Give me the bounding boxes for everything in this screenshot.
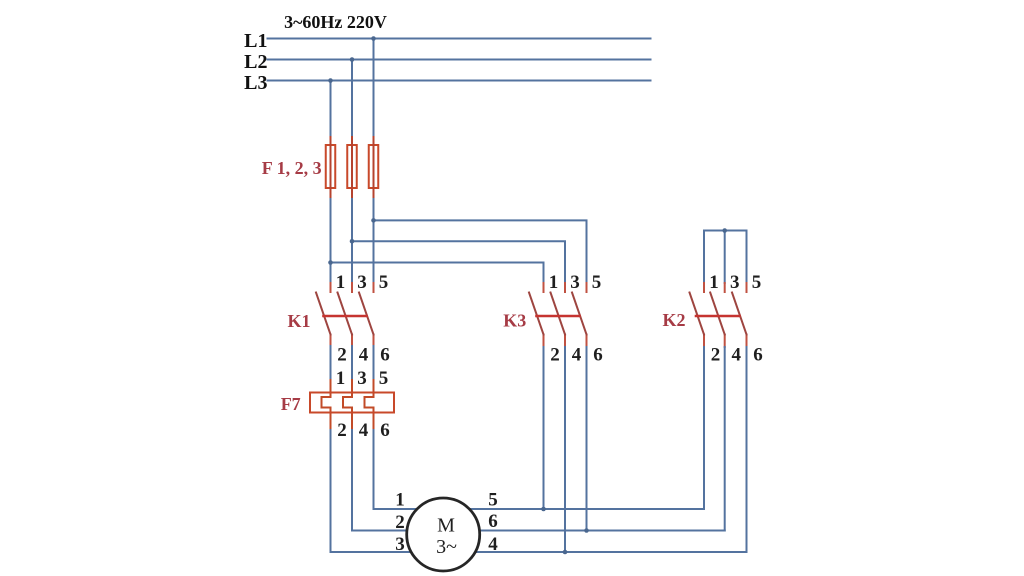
- wire L2 rail: [268, 59, 651, 61]
- svg-text:4: 4: [359, 420, 369, 441]
- fuse F3 wire: [373, 137, 375, 199]
- fuse F3 body: [369, 145, 379, 188]
- svg-text:2: 2: [711, 344, 721, 365]
- junction branch L1: [371, 218, 376, 223]
- fuse F3 inner wire: [373, 145, 375, 188]
- svg-text:5: 5: [752, 272, 762, 293]
- wire K2 pole 2 down to motor line 6: [724, 347, 726, 531]
- overload F7 heater pole 1: [322, 380, 331, 430]
- contactor K3 pole 3 contact: [586, 283, 588, 347]
- svg-text:K3: K3: [503, 311, 526, 331]
- contactor K1 crossbar: [324, 315, 367, 318]
- svg-text:1: 1: [709, 272, 719, 293]
- wire fuse F1 to K1 pole 1: [330, 199, 332, 283]
- fuse F1 wire: [330, 137, 332, 199]
- svg-text:4: 4: [488, 534, 498, 555]
- junction K2 bridge: [722, 228, 727, 233]
- wire fuse F2 to K1 pole 2: [351, 199, 353, 283]
- svg-text:1: 1: [395, 490, 405, 511]
- junction K3 pole 3 / line 6: [584, 528, 589, 533]
- wire K2 pole 3 down to motor line 4: [746, 347, 748, 552]
- contactor K1 pole 1 contact: [330, 283, 332, 346]
- wire branch phase L3 to K3 pole 1: [331, 263, 544, 284]
- contactor K3 pole 1 contact: [543, 283, 545, 347]
- wire L3 tap down to fuse F1: [330, 81, 332, 138]
- motor M1 body: [407, 498, 480, 571]
- wire motor line 3-4: [331, 551, 747, 553]
- contactor K2 pole 3 contact: [746, 283, 748, 347]
- contactor K3 pole 2 contact: [564, 283, 566, 347]
- wire K1 to F7 pole 1: [330, 346, 332, 380]
- wire F7 pole 2 to motor line 2: [351, 430, 353, 531]
- junction K3 pole 1 / line 5: [541, 507, 546, 512]
- wire L1 rail: [268, 38, 651, 40]
- contactor K3 crossbar: [537, 315, 580, 318]
- svg-text:4: 4: [572, 344, 582, 365]
- junction L3 tap: [328, 78, 333, 83]
- fuse F2 inner wire: [351, 145, 353, 188]
- svg-text:6: 6: [380, 344, 390, 365]
- wire K3 pole 2 down to motor line 4: [564, 347, 566, 552]
- svg-text:L1: L1: [244, 30, 267, 52]
- svg-text:3~: 3~: [436, 536, 457, 558]
- svg-text:4: 4: [359, 344, 369, 365]
- overload F7 heater pole 3: [365, 380, 374, 430]
- junction L1 tap: [371, 36, 376, 41]
- wire K2 pole 2 drop: [724, 231, 726, 284]
- overload F7 heater pole 2: [343, 380, 352, 430]
- svg-text:2: 2: [550, 344, 560, 365]
- junction K3 pole 2 / line 4: [563, 550, 568, 555]
- svg-text:L3: L3: [244, 72, 267, 94]
- contactor K1 pole 3 contact: [373, 283, 375, 346]
- wire L2 tap down to fuse F2: [351, 60, 353, 138]
- svg-text:1: 1: [549, 272, 559, 293]
- wire F7 pole 1 to motor line 3: [330, 430, 332, 552]
- junction branch L3: [328, 260, 333, 265]
- svg-text:6: 6: [593, 344, 603, 365]
- svg-text:1: 1: [336, 272, 346, 293]
- wire F7 pole 3 to motor line 1: [373, 430, 375, 509]
- svg-text:2: 2: [395, 512, 405, 533]
- wire fuse F3 to K1 pole 3: [373, 199, 375, 283]
- svg-text:L2: L2: [244, 51, 267, 73]
- wire motor line 2-6: [352, 530, 725, 532]
- fuse F1 inner wire: [330, 145, 332, 188]
- contactor K1 pole 2 contact: [351, 283, 353, 346]
- svg-text:F 1, 2, 3: F 1, 2, 3: [262, 158, 322, 178]
- wire K2 pole 3 drop: [746, 231, 748, 284]
- wire K1 to F7 pole 3: [373, 346, 375, 380]
- wire L3 rail: [268, 80, 651, 82]
- svg-text:1: 1: [336, 368, 346, 389]
- wire L1 tap down to fuse F3: [373, 39, 375, 138]
- svg-text:5: 5: [592, 272, 602, 293]
- fuse F1 body: [326, 145, 336, 188]
- svg-text:F7: F7: [281, 394, 301, 414]
- wire K2 pole 1 drop: [703, 231, 705, 284]
- junction L2 tap: [350, 57, 355, 62]
- contactor K2 pole 1 contact: [703, 283, 705, 347]
- contactor K2 crossbar: [696, 315, 740, 318]
- svg-text:3~60Hz 220V: 3~60Hz 220V: [284, 12, 387, 32]
- svg-text:5: 5: [379, 368, 389, 389]
- fuse F2 body: [347, 145, 357, 188]
- svg-text:3: 3: [570, 272, 580, 293]
- svg-text:3: 3: [730, 272, 740, 293]
- wire K3 pole 3 down to motor line 6: [586, 347, 588, 531]
- svg-text:2: 2: [337, 344, 347, 365]
- svg-text:3: 3: [395, 534, 405, 555]
- contactor K2 pole 2 contact: [724, 283, 726, 347]
- svg-text:5: 5: [488, 490, 498, 511]
- svg-text:5: 5: [379, 272, 389, 293]
- wire K3 pole 1 down to motor line 5: [543, 347, 545, 509]
- wire K2 pole 1 down to motor line 5: [703, 347, 705, 509]
- svg-text:6: 6: [488, 511, 498, 532]
- fuse F2 wire: [351, 137, 353, 199]
- wire branch phase L2 to K3 pole 2: [352, 241, 565, 283]
- svg-text:M: M: [437, 515, 455, 537]
- wire branch phase L1 to K3 pole 3: [374, 220, 587, 283]
- svg-text:K1: K1: [287, 311, 310, 331]
- svg-text:4: 4: [731, 344, 741, 365]
- overload F7 body: [310, 393, 394, 413]
- svg-text:K2: K2: [662, 310, 685, 330]
- wire K2 star bridge: [704, 230, 747, 232]
- svg-text:2: 2: [337, 420, 347, 441]
- wire motor line 1-5: [374, 508, 705, 510]
- svg-text:3: 3: [357, 272, 367, 293]
- junction branch L2: [350, 239, 355, 244]
- wire K1 to F7 pole 2: [351, 346, 353, 380]
- svg-text:6: 6: [380, 420, 390, 441]
- svg-text:3: 3: [357, 368, 367, 389]
- svg-text:6: 6: [753, 344, 763, 365]
